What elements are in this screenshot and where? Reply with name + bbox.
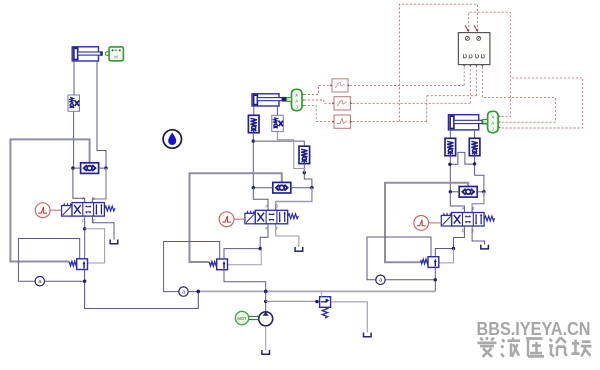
LS line left (thick)	[10, 139, 89, 261]
wire to relief valve	[266, 300, 320, 302]
wire FM1 to node	[45, 280, 85, 282]
cylinder C1	[72, 47, 103, 61]
relay box K3	[332, 115, 352, 128]
pressure compensator PC2	[209, 259, 227, 270]
relay box K1	[330, 79, 350, 92]
svg-text:BBS.IYEYA.CN: BBS.IYEYA.CN	[477, 318, 591, 339]
watermark line 2 (CJK drawn)	[478, 337, 592, 357]
junction R2	[473, 162, 476, 165]
wire sensor2 to relay1	[304, 85, 330, 94]
controller input arrow 2	[474, 25, 478, 32]
counterbalance valve CB3a	[445, 138, 456, 155]
wire cap-side C2	[253, 106, 255, 115]
junction B1	[104, 166, 107, 169]
wire sensor2 to relay3	[304, 106, 332, 122]
wire CB3b out	[475, 156, 484, 192]
junction FM1 node	[83, 280, 86, 283]
fluid indicator	[163, 130, 181, 148]
pressure compensator PC1	[69, 259, 87, 270]
tank T1	[110, 240, 118, 244]
wire node to shuttle left	[253, 187, 272, 189]
tank T5	[262, 350, 270, 354]
measuring loop left	[18, 239, 79, 282]
pilot line P3 to compensator	[439, 249, 454, 263]
setpoint link	[50, 209, 62, 211]
wire P1 down	[84, 218, 86, 259]
cylinder C3	[448, 115, 487, 130]
wire pin4 to sensor3	[482, 67, 555, 122]
relay box K2	[332, 97, 352, 110]
junction relief tap	[264, 300, 267, 303]
displacement sensor S1 (green box)	[105, 47, 123, 61]
junction A1	[71, 166, 74, 169]
wire sensor3 to controller input 1	[469, 12, 511, 117]
setpoint generator W3	[414, 216, 429, 231]
setpoint link 3	[428, 222, 441, 224]
wire T1 to tank	[92, 218, 114, 240]
controller U1	[458, 33, 490, 67]
junction P1	[83, 227, 86, 230]
wire R3 to valve A	[450, 192, 464, 213]
wire shuttle right	[477, 191, 484, 193]
wire T3 to tank	[472, 228, 485, 245]
pilot line P2 to compensator	[228, 249, 262, 265]
counterbalance valve CB2a	[248, 115, 259, 132]
junction P2	[259, 247, 262, 250]
displacement sensor S3	[483, 111, 501, 132]
measuring loop right	[367, 237, 431, 280]
tank T2	[295, 247, 303, 251]
proportional valve PV3	[441, 206, 495, 233]
relief valve RV1	[320, 292, 331, 318]
junction FM3 node	[434, 278, 437, 281]
wire compensator bottom to supply	[85, 270, 199, 309]
wire sensor3 lower branch	[502, 78, 583, 128]
junction R4	[482, 190, 485, 193]
LS line right (thick)	[385, 183, 468, 263]
wire P2 down	[224, 226, 268, 259]
junction M2	[303, 171, 306, 174]
wire cap-side C3	[449, 130, 451, 138]
pressure compensator PC3	[421, 257, 439, 268]
cylinder C2	[252, 94, 287, 106]
throttle check valve V1	[68, 95, 80, 111]
wire relief out to tank	[331, 302, 368, 333]
proportional valve PV1	[61, 196, 115, 223]
wire CB2a out	[252, 133, 254, 188]
wire P3 down	[435, 228, 464, 257]
flow meter FM1	[35, 277, 44, 286]
junction M1	[252, 139, 255, 142]
wire R4 to valve B	[472, 192, 484, 213]
wire A1 to valve A port	[73, 168, 85, 203]
pilot line P1 to compensator right	[85, 229, 105, 263]
wire CB3a out	[449, 156, 451, 192]
wire rod-side C2	[276, 106, 278, 115]
pump riser	[265, 291, 267, 312]
wire PC3 bottom to pump line	[434, 267, 436, 291]
shuttle valve SH2	[273, 182, 291, 193]
tank T4	[364, 333, 372, 337]
main pressure line	[198, 290, 435, 292]
setpoint generator W2	[219, 212, 234, 227]
measuring loop middle	[164, 242, 220, 292]
wire relay3 to pin3	[353, 67, 477, 122]
junction R3	[449, 190, 452, 193]
junction R1	[448, 163, 451, 166]
wire M4 to valve B	[276, 188, 312, 211]
wire to shuttle left	[450, 191, 459, 193]
wire node A1 to shuttle	[73, 167, 81, 169]
counterbalance valve CB3b	[469, 138, 480, 155]
flow meter FM3	[376, 275, 385, 284]
electric motor MOT	[235, 311, 248, 324]
wire PC2 bottom to pump line	[224, 270, 266, 292]
wire rod-side C3	[474, 130, 476, 138]
flow meter FM2	[179, 287, 188, 296]
throttle check valve V2	[272, 115, 284, 131]
wire T2 to tank	[276, 226, 299, 247]
tank T3	[481, 245, 489, 249]
shuttle valve SH3	[459, 187, 477, 198]
controller input arrow 1	[465, 25, 469, 32]
LS line middle (thick)	[190, 173, 282, 262]
svg-text:MOT: MOT	[237, 316, 247, 321]
wire shuttle right	[291, 187, 312, 189]
svg-text:H: H	[114, 55, 117, 60]
wire throttle to node A1	[73, 111, 75, 168]
wire shuttle to node B1	[99, 167, 106, 169]
proportional valve PV2	[245, 204, 299, 231]
wire relay3 net to controller input 2	[399, 4, 477, 121]
wire CB2b out	[304, 164, 312, 189]
wire M3 to valve A	[253, 188, 268, 211]
setpoint link 2	[234, 218, 245, 220]
bridge between CB outputs	[450, 152, 475, 164]
junction supply node	[197, 290, 201, 294]
wire relay2 to pin2	[353, 67, 471, 103]
wire rod-side C1	[97, 61, 106, 168]
pump suction line	[265, 326, 267, 350]
shuttle valve SH1	[81, 163, 99, 174]
wire relay1 to pin1	[350, 67, 464, 85]
wire throttle V2 to M2	[277, 132, 304, 173]
junction M3	[252, 186, 255, 189]
wire cap-side C1 to throttle	[73, 61, 75, 95]
junction relief in	[315, 300, 318, 303]
displacement sensor S2	[287, 89, 305, 110]
junction M4	[310, 186, 313, 189]
junction pump node	[264, 290, 268, 294]
counterbalance valve CB2b	[299, 146, 310, 163]
wire B1 to valve B port	[92, 168, 106, 203]
junction P3	[452, 247, 455, 250]
motor shaft	[249, 316, 259, 319]
setpoint generator W1	[35, 203, 50, 218]
wire M1 to CB2b	[253, 141, 304, 146]
wire FM2 to supply node	[188, 291, 198, 293]
pump P	[259, 312, 273, 326]
wire FM3 to node	[385, 279, 435, 281]
wire sensor2 to relay2	[304, 100, 332, 103]
